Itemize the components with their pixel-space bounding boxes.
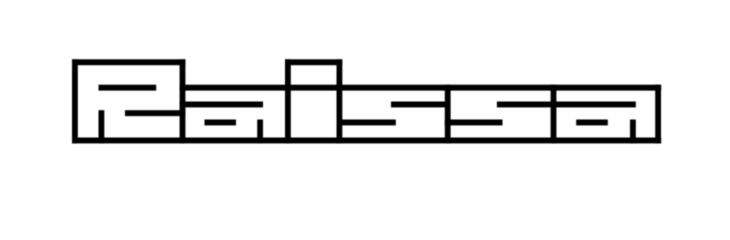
letter s1: inner lower bar (L3): [337, 120, 396, 126]
letter a1: small bar (L3): [205, 120, 237, 126]
letter R: right stem: [180, 59, 186, 143]
baseline bar across whole word: [72, 138, 661, 144]
letter i: right stem: [337, 59, 343, 143]
letter i: top bar: [285, 59, 342, 65]
letter a2: right stem: [655, 85, 661, 144]
letter a2: inner stub: [630, 120, 636, 144]
x-height top bar across a,i,s,s,a: [180, 85, 662, 91]
letter a2: small bar (L3): [576, 120, 608, 126]
letter s2: inner upper bar (L2): [497, 102, 556, 108]
letter s2: inner lower bar (L3): [445, 120, 503, 126]
letter a2: inner upper bar (L2): [551, 102, 636, 108]
letter R: inner upper bar: [99, 85, 157, 91]
letter R: top bar: [72, 59, 185, 65]
letter s1: right stem: [445, 85, 451, 144]
letter s2: right stem: [551, 85, 557, 144]
letter a1: inner upper bar (L2): [180, 102, 263, 108]
letter a1: inner stub: [257, 120, 263, 144]
letter s1: inner upper bar (L2): [391, 102, 451, 108]
letter i: left stem: [285, 59, 291, 143]
letter R: inner mid bar: [125, 110, 185, 116]
letter R: inner leg stub: [99, 110, 105, 143]
letter R: left stem: [72, 59, 78, 143]
